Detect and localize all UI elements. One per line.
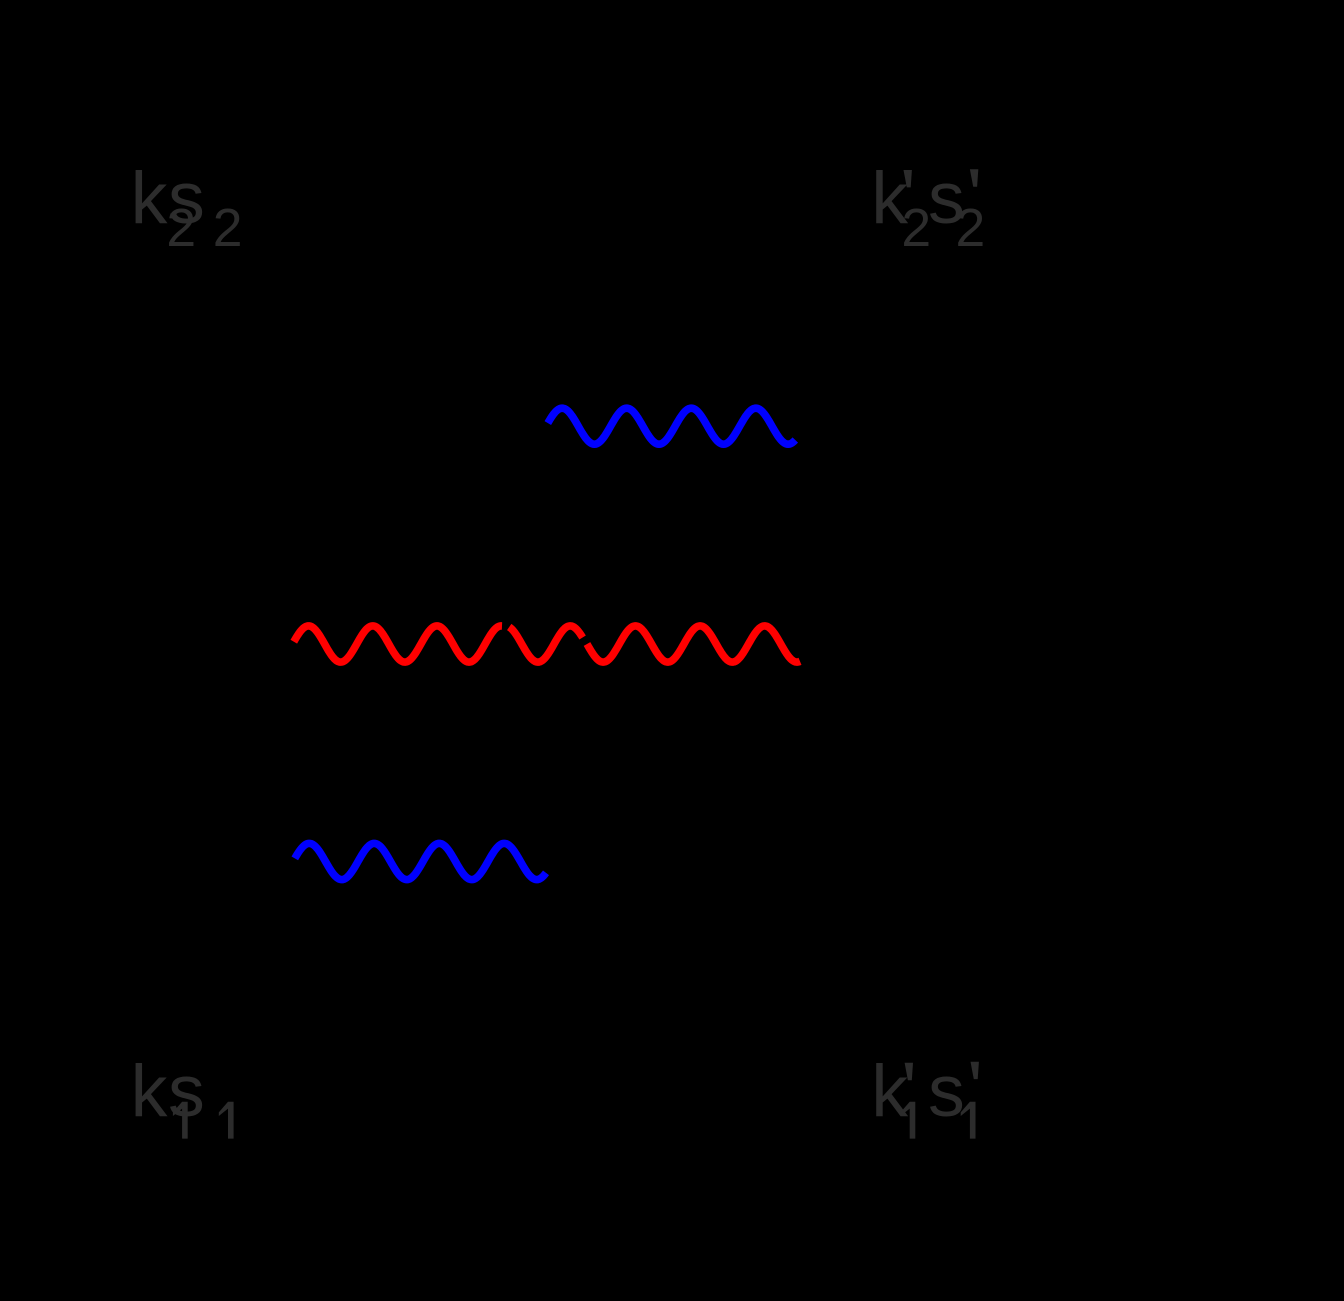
svg-text:2: 2 xyxy=(213,199,243,258)
label k'1s'1 (bottom-right): prime of k xyxy=(905,1063,913,1080)
photon propagator top (blue) xyxy=(548,408,796,444)
photon propagator middle, centre red segment xyxy=(509,626,582,662)
photon propagator middle, right red segment xyxy=(587,626,800,662)
label k'1s'1 (bottom-right): prime of s xyxy=(971,1062,979,1079)
label k'2s'2 (top-right): prime of k xyxy=(904,170,912,187)
svg-text:2: 2 xyxy=(901,199,931,258)
svg-text:k: k xyxy=(131,156,168,239)
svg-text:s: s xyxy=(168,156,205,239)
label k'1s'1 (bottom-right): subscript 1 of s xyxy=(961,1102,976,1139)
svg-text:s: s xyxy=(928,1049,965,1132)
label k'1s'1 (bottom-right): subscript 1 of k xyxy=(901,1102,916,1139)
label k1s1 (bottom-left): subscript 1 of s xyxy=(219,1102,234,1139)
label k'2s'2 (top-right): prime of s xyxy=(970,169,978,186)
svg-text:k: k xyxy=(131,1049,168,1132)
photon propagator middle, left red segment xyxy=(294,626,502,662)
svg-text:2: 2 xyxy=(956,199,986,258)
photon propagator bottom (blue) xyxy=(295,843,546,879)
svg-text:k: k xyxy=(871,1049,908,1132)
label k1s1 (bottom-left): subscript 1 of k xyxy=(173,1102,188,1139)
